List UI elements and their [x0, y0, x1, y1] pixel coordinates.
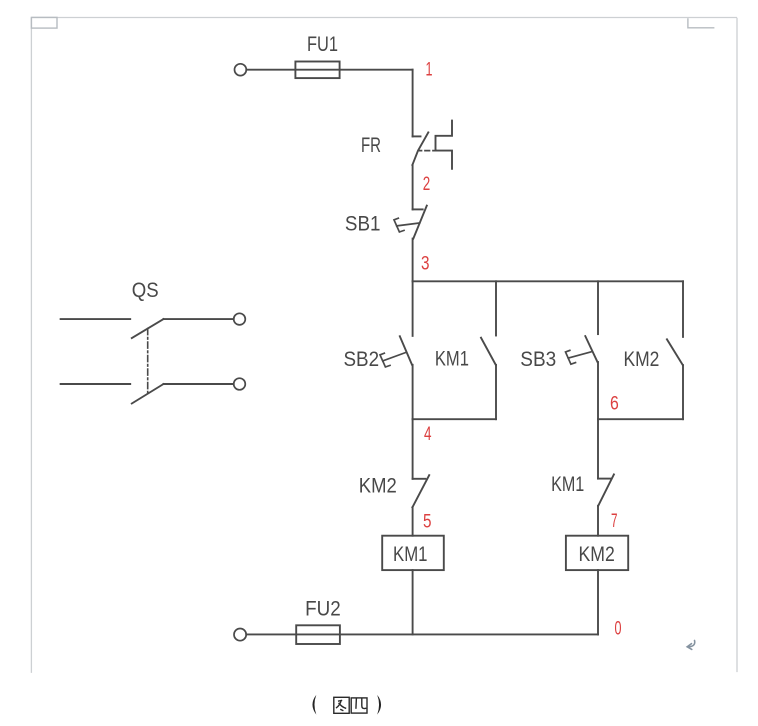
- svg-text:SB1: SB1: [345, 212, 381, 236]
- svg-text:0: 0: [615, 618, 622, 640]
- svg-text:2: 2: [423, 173, 431, 195]
- svg-text:KM2: KM2: [359, 474, 397, 498]
- svg-text:SB3: SB3: [520, 347, 556, 371]
- svg-text:QS: QS: [132, 278, 159, 302]
- svg-text:3: 3: [421, 253, 430, 275]
- svg-text:KM1: KM1: [435, 347, 469, 371]
- svg-text:4: 4: [424, 423, 432, 445]
- svg-text:KM1: KM1: [393, 542, 428, 566]
- svg-text:SB2: SB2: [344, 347, 380, 371]
- svg-text:5: 5: [423, 511, 432, 533]
- svg-text:6: 6: [610, 393, 619, 415]
- svg-text:KM2: KM2: [579, 542, 615, 566]
- svg-text:KM1: KM1: [551, 472, 584, 496]
- svg-text:FR: FR: [361, 133, 381, 157]
- svg-text:7: 7: [611, 510, 618, 532]
- svg-text:1: 1: [426, 59, 433, 81]
- svg-text:FU1: FU1: [307, 32, 338, 56]
- svg-text:KM2: KM2: [624, 347, 660, 371]
- svg-text:FU2: FU2: [305, 597, 341, 621]
